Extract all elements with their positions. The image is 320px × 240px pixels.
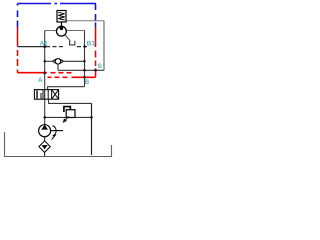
enclosure box bottom xyxy=(58,69,104,71)
wire line B vertical xyxy=(84,31,86,87)
wire valve T to return xyxy=(49,99,92,103)
wire valve P to pump xyxy=(44,99,46,125)
red drain line to valve xyxy=(48,76,96,78)
junction dots xyxy=(43,45,46,48)
reservoir outline xyxy=(5,132,112,157)
relief valve R1 stem xyxy=(61,22,63,27)
relief valve R1 ball xyxy=(60,26,64,30)
relief valve R1 spring box xyxy=(57,11,66,23)
wire filter to tank xyxy=(44,152,46,156)
relief valve R1 drain diagonal xyxy=(65,35,71,41)
enclosure grey box right xyxy=(103,21,105,71)
pump P1 circle xyxy=(39,125,51,137)
pump P1 triangle xyxy=(41,125,48,130)
directional valve DV solenoid X xyxy=(52,90,59,100)
blue boundary right vertical xyxy=(95,4,97,28)
blue dash-dot boundary top line xyxy=(18,3,97,5)
wire B jog to valve xyxy=(48,87,85,90)
wire relief valve right port xyxy=(66,30,85,32)
svg-text:A1: A1 xyxy=(40,41,49,48)
red boundary right vertical xyxy=(95,27,97,77)
red boundary bottom line xyxy=(18,72,72,74)
red boundary left vertical xyxy=(17,27,19,73)
directional valve DV divider 2 xyxy=(51,90,53,100)
filter F1 diamond xyxy=(39,141,50,153)
wire relief valve left port xyxy=(45,30,57,32)
wire check valve lower branch xyxy=(57,65,59,71)
svg-text:A: A xyxy=(38,77,43,84)
svg-text:B1: B1 xyxy=(87,41,96,48)
directional valve DV divider 1 xyxy=(42,90,44,100)
relief valve R1 spring xyxy=(58,12,64,20)
relief valve R2 drain arrow xyxy=(65,116,69,120)
pump P1 rotation barb xyxy=(52,135,56,140)
wire check valve right xyxy=(63,60,84,62)
check valve V1 lens xyxy=(53,59,64,64)
pump P1 shaft xyxy=(51,130,63,132)
wire return vertical xyxy=(91,103,93,155)
filter F1 triangle xyxy=(42,145,48,149)
wire check valve left xyxy=(45,60,53,62)
wire pump to filter xyxy=(44,137,46,141)
directional valve DV right position through paths xyxy=(44,90,46,100)
blue boundary left vertical xyxy=(17,4,19,28)
relief valve R2 pilot staple xyxy=(64,107,71,112)
directional valve DV left position blocked ports xyxy=(36,90,38,98)
wire pump branch to relief xyxy=(45,116,92,118)
dashed line A1-B1 xyxy=(18,46,88,48)
tank symbol T1 xyxy=(70,41,75,45)
svg-text:S: S xyxy=(98,63,102,70)
svg-text:B: B xyxy=(85,79,90,86)
wire line A vertical xyxy=(44,31,46,90)
directional valve DV body xyxy=(34,90,58,100)
relief valve R2 body xyxy=(66,110,75,118)
enclosure grey box top xyxy=(66,20,105,22)
relief valve R1 body circle xyxy=(57,26,67,36)
check valve V1 ball xyxy=(55,59,60,64)
pump P1 rotation arc xyxy=(53,126,57,136)
